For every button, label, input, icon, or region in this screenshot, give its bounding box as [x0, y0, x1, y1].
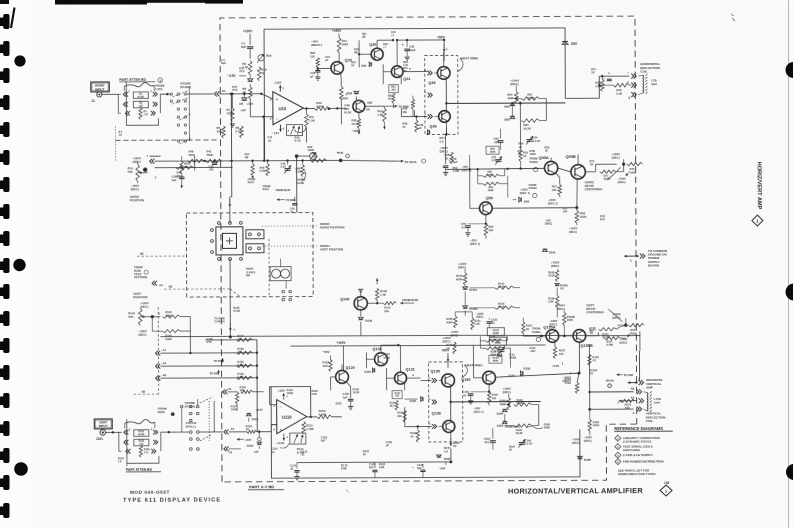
svg-text:R147: R147 [248, 180, 255, 184]
label R52 1.46K [453, 166, 460, 173]
wire out cluster [511, 98, 546, 120]
resistor R148b 2M [236, 347, 252, 355]
wire q120-q130 [342, 364, 361, 370]
svg-text:(DEC): (DEC) [572, 441, 580, 445]
svg-text:1 K: 1 K [118, 134, 122, 137]
svg-text:100K: 100K [226, 111, 234, 115]
wire vert atten out [161, 431, 177, 433]
svg-text:D38: D38 [347, 91, 353, 95]
svg-text:D106: D106 [247, 444, 254, 448]
svg-text:6μH: 6μH [651, 82, 656, 86]
svg-text:(B): (B) [362, 36, 366, 39]
interconnect arrow midleft [152, 281, 163, 287]
Q55B emitter right [584, 172, 596, 183]
svg-text:16.2K: 16.2K [344, 110, 351, 114]
title HORIZONTAL/VERTICAL AMPLIFIER [508, 486, 643, 496]
svg-text:+100V: +100V [243, 29, 253, 33]
svg-text:5μF: 5μF [321, 440, 326, 443]
svg-text:.561: .561 [391, 89, 396, 92]
right edge hole bump 2 [786, 284, 793, 301]
svg-text:+3.4V: +3.4V [256, 408, 263, 412]
ref item 1 [623, 436, 660, 444]
svg-text:U10: U10 [279, 106, 287, 111]
inductor LITB vert [644, 391, 661, 412]
svg-text:100K: 100K [567, 318, 573, 322]
wire AL to opamp [219, 92, 272, 98]
Q140 base network [367, 302, 383, 304]
svg-text:100: 100 [492, 396, 497, 400]
svg-text:1.76K: 1.76K [306, 427, 315, 431]
label TO R88b [277, 198, 296, 202]
connector J1 [91, 92, 102, 103]
resistor R58 161K [575, 178, 587, 223]
label R144 50K [128, 311, 135, 318]
transistor Q20 [331, 58, 352, 74]
svg-text:6.34K: 6.34K [316, 104, 325, 108]
svg-text:− 15V: − 15V [271, 131, 279, 135]
U110 trim network [290, 433, 306, 444]
diode D106 [247, 432, 262, 448]
svg-text:1K: 1K [445, 156, 449, 160]
svg-text:1.11: 1.11 [144, 451, 149, 454]
label RST 100 [563, 206, 568, 213]
Q30 collector [377, 39, 394, 48]
Q155A emitter [554, 341, 556, 346]
svg-text:(DEC): (DEC) [503, 390, 511, 394]
svg-text:1M: 1M [245, 155, 249, 159]
switch top wire [228, 161, 232, 223]
svg-text:90.9K: 90.9K [138, 96, 145, 99]
chevrons coil 2 [627, 81, 636, 88]
resistor R141 84.5K [465, 282, 514, 296]
svg-text:5.6K: 5.6K [379, 465, 385, 469]
svg-text:600Ω: 600Ω [383, 355, 391, 359]
label TO R49 [210, 370, 220, 376]
svg-text:(DEC 1): (DEC 1) [474, 410, 484, 414]
svg-text:86.5K: 86.5K [498, 305, 505, 309]
label FROM R147 [248, 176, 256, 185]
part x axis bd block [246, 267, 255, 278]
transistor Q135 [431, 369, 455, 387]
resistor R65 56.2K [521, 119, 539, 131]
svg-text:6.2M: 6.2M [238, 375, 244, 379]
svg-text:Q31: Q31 [403, 77, 410, 81]
svg-text:.001: .001 [484, 440, 490, 444]
svg-text:1.11: 1.11 [143, 113, 148, 116]
resistor R19 6.34K [314, 101, 329, 110]
resistor R39 39 [402, 115, 418, 132]
Q31 emitter down [400, 77, 402, 84]
resistor R148 1.4K [375, 278, 387, 303]
labels q20 area [325, 56, 356, 68]
svg-text:6.2M: 6.2M [237, 363, 243, 367]
sw dashed inner drop [268, 239, 270, 297]
svg-text:(B&C): (B&C) [545, 223, 552, 226]
svg-text:AA: AA [631, 396, 635, 400]
svg-text:+20V: +20V [245, 438, 252, 442]
label +100V DEC bias2 [450, 330, 458, 337]
Q140 collector gnd [358, 289, 363, 296]
svg-text:R169A: R169A [532, 330, 540, 334]
pot VERT POSITION [133, 292, 149, 337]
svg-text:16.2K: 16.2K [353, 391, 360, 395]
label C110 .01 [271, 444, 289, 454]
trimmer C64 [526, 136, 541, 145]
label PART X-Y BD [248, 484, 284, 490]
scratch mark top right [731, 14, 735, 21]
sw dashed link 1 [262, 225, 318, 227]
svg-text:D130: D130 [365, 370, 372, 374]
label TO K8F [617, 373, 634, 377]
transistor Q120 [336, 366, 355, 383]
Q20 base wire [317, 67, 331, 110]
svg-text:GAIN: GAIN [297, 181, 304, 185]
label FROM R355 [158, 407, 175, 433]
resistor R105 499 [240, 385, 253, 393]
wire switch out vert [199, 431, 222, 433]
svg-text:360: 360 [397, 414, 402, 418]
svg-text:1mH: 1mH [654, 400, 660, 404]
labels near switch drop [214, 306, 240, 324]
page top edge shadow [55, 0, 243, 5]
svg-text:(DEC): (DEC) [442, 339, 450, 343]
svg-text:AMP: AMP [646, 386, 653, 390]
interconnect AK [156, 373, 258, 381]
label R159A [590, 369, 598, 375]
diode D148 [358, 317, 372, 336]
svg-text:150K: 150K [165, 313, 172, 317]
svg-text:500K: 500K [207, 153, 214, 157]
resistor R8 1K [242, 84, 252, 117]
svg-text:E7Ω: E7Ω [232, 88, 237, 92]
label +15V small [246, 102, 253, 106]
resistor R146 1K [446, 342, 456, 354]
svg-text:499K: 499K [500, 402, 507, 406]
labels right mid [545, 215, 606, 225]
svg-text:16 K: 16 K [600, 218, 605, 221]
svg-text:(DEC): (DEC) [510, 82, 518, 86]
svg-text:.001: .001 [209, 168, 215, 172]
label REFERENCE DIAGRAMS [614, 426, 673, 431]
label FROM R145 [276, 188, 291, 192]
wire centering down [616, 164, 624, 172]
svg-text:K8T: K8T [367, 101, 372, 105]
U110 output [307, 416, 317, 418]
capacitor C126 [343, 392, 354, 410]
label VERT INPUT [94, 419, 112, 429]
title MOD 040-05ST [130, 490, 170, 495]
svg-text:56.2K: 56.2K [517, 401, 524, 405]
Q135-Q136 junction [449, 386, 452, 422]
svg-text:D136: D136 [444, 457, 451, 461]
capacitor C40 .001 [209, 160, 218, 172]
Q150 base [473, 345, 482, 378]
svg-text:1K: 1K [446, 346, 450, 350]
label R164 1K [509, 445, 516, 452]
svg-text:AB: AB [631, 387, 635, 391]
svg-text:1μF: 1μF [343, 395, 348, 399]
pen slash mark [11, 8, 15, 29]
label TO R148 [213, 358, 224, 363]
transistor Q36 [429, 111, 450, 129]
svg-text:AJ: AJ [162, 348, 166, 352]
store switch wires vert [182, 397, 213, 441]
vertical bus 232 lower [230, 92, 233, 196]
U110 feedback box [269, 387, 311, 432]
svg-text:1.46K: 1.46K [453, 169, 460, 173]
resistor R147 91K [383, 302, 396, 313]
svg-text:84.5K: 84.5K [498, 285, 505, 289]
pot wiper wire bottom [145, 312, 160, 319]
resistor R60 499K [507, 92, 518, 104]
Q155 interbase wire [559, 335, 573, 338]
diode D130 [365, 368, 375, 374]
diode D60b [504, 103, 514, 108]
capacitor C50 .01 [461, 222, 487, 236]
binder hole dot 1 [14, 55, 25, 66]
label HEAT SINK [460, 56, 478, 60]
label HEAT SINK 2 [464, 363, 482, 367]
wire to Q136 base [405, 407, 432, 427]
label R136 cluster [437, 441, 460, 461]
svg-text:CENTERING: CENTERING [585, 187, 603, 191]
wire input to attenuator [102, 93, 118, 95]
sep vert row2 [631, 387, 642, 395]
resistor R3 1.11K [139, 107, 149, 119]
svg-text:POSITION: POSITION [133, 295, 147, 299]
store switch labels vert [185, 401, 197, 429]
svg-text:5Ω: 5Ω [560, 288, 563, 291]
label -3.5V [227, 74, 246, 78]
svg-text:D160: D160 [549, 250, 556, 254]
resistor R45 6.2M [260, 160, 270, 176]
Q150 emitter [488, 384, 490, 392]
svg-text:U5ER: U5ER [509, 357, 516, 360]
label -100V DEC centering [618, 171, 630, 184]
svg-text:+: + [280, 428, 282, 432]
resistor R159B 100K [557, 303, 575, 336]
svg-text:TO R148: TO R148 [213, 359, 224, 363]
wire bottom rail [297, 461, 451, 464]
svg-text:100K: 100K [342, 42, 349, 46]
svg-text:100: 100 [563, 210, 568, 214]
switch dashed box [186, 213, 313, 298]
coil stub wires [638, 75, 643, 95]
horiz input inner box [92, 83, 108, 91]
labels atten top extra [118, 131, 122, 137]
bus down from atten [230, 94, 232, 161]
resistor R105b 1K [246, 424, 257, 433]
label TO GE15 [397, 159, 426, 164]
svg-text:Y: Y [233, 328, 235, 332]
svg-text:5Ω: 5Ω [453, 444, 457, 448]
label +50V b [441, 348, 450, 368]
svg-text:(DEC): (DEC) [476, 316, 483, 319]
Q150 out right [495, 373, 579, 377]
svg-text:& DYNAMIC FOCUS: & DYNAMIC FOCUS [623, 440, 651, 444]
label HORIZONTAL DEFLECTION COIL [640, 62, 661, 74]
testpoint TP45 [337, 151, 350, 162]
atten joins [118, 94, 160, 113]
bus 232-297 link [232, 154, 299, 213]
svg-text:15Ω: 15Ω [625, 406, 630, 410]
resistor R179 15R [618, 396, 644, 410]
vert atten row2 [124, 440, 158, 445]
wire A1 to U110 [229, 425, 277, 433]
svg-text:(DEC): (DEC) [138, 333, 146, 337]
boxed label R152 [487, 328, 504, 336]
svg-text:FROM R138: FROM R138 [402, 298, 418, 302]
svg-text:.01: .01 [301, 454, 305, 457]
U10 -15V pin4 [271, 125, 284, 136]
svg-text:Q135: Q135 [431, 369, 440, 373]
diode D185 [578, 456, 592, 462]
diode D38 [347, 91, 359, 95]
Q155A base [523, 335, 546, 338]
switch wafer right 1 [246, 230, 264, 239]
svg-text:Q: Q [628, 97, 630, 100]
dashed 5R line 2 [133, 307, 158, 394]
svg-text:1K: 1K [509, 448, 512, 452]
labels top deflection [591, 68, 610, 75]
svg-text:1K: 1K [363, 453, 366, 456]
title diamond [660, 485, 672, 496]
svg-text:(2): (2) [366, 107, 369, 111]
label R14 50K [128, 166, 134, 173]
svg-text:D160: D160 [497, 412, 504, 416]
side label HORIZ/VERT AMP [756, 162, 762, 210]
arrow L into Q35 [443, 44, 448, 52]
resistor R18 1K [257, 67, 267, 81]
svg-text:2M: 2M [237, 350, 241, 354]
U110 +15V [278, 389, 289, 400]
transistor Q140 [340, 297, 367, 310]
Q50 collector wire [486, 185, 500, 204]
label -100V DEC bot [503, 387, 512, 398]
svg-text:56.2K: 56.2K [523, 126, 530, 130]
label +100V vert centering [612, 312, 626, 325]
svg-text:100: 100 [184, 165, 189, 169]
capacitor C150 .01 [463, 390, 491, 404]
svg-text:100: 100 [395, 395, 400, 398]
label RT5 1A [590, 160, 595, 166]
svg-text:Q36: Q36 [429, 124, 436, 128]
wire vert input [106, 431, 122, 433]
rail +50V [437, 35, 446, 61]
labels bottom mid [321, 436, 393, 456]
svg-text:195: 195 [559, 352, 564, 356]
svg-text:100K: 100K [530, 152, 536, 156]
svg-text:1 K: 1 K [118, 460, 122, 463]
svg-text:(DEC): (DEC) [131, 187, 139, 191]
svg-text:100R: 100R [308, 148, 314, 152]
svg-text:AA: AA [162, 361, 166, 365]
labels q30 aux [362, 31, 396, 39]
cap C75 [603, 76, 612, 81]
dashed 2R line [137, 252, 187, 257]
transistor Q31 [391, 66, 410, 81]
svg-text:D60: D60 [571, 42, 577, 46]
label +3V [253, 446, 259, 454]
svg-text:J101: J101 [96, 437, 103, 441]
resistor R150 600K [446, 312, 465, 328]
svg-text:5.9: 5.9 [440, 139, 444, 143]
capacitor C9 1.5uF [241, 41, 253, 59]
trimmer C45 9-35 [281, 159, 292, 173]
svg-text:+ I: + I [383, 45, 386, 49]
Q50 output right [492, 207, 577, 210]
label +100V DEC bias [458, 262, 467, 273]
label -50V q155 [551, 362, 562, 368]
svg-text:(DEC): (DEC) [569, 230, 577, 234]
page number 148 [664, 481, 670, 485]
diode D58 [513, 197, 530, 203]
diode D160b [497, 409, 507, 415]
svg-text:600R: 600R [493, 332, 499, 335]
diode D5 [239, 94, 247, 106]
svg-text:(PULL): (PULL) [186, 425, 196, 429]
resistor R48 500K [188, 149, 204, 162]
svg-text:5.6K: 5.6K [548, 300, 554, 304]
title TYPE 611 DISPLAY DEVICE [123, 497, 221, 503]
svg-text:600K: 600K [456, 277, 463, 281]
resistor R6 0.15 [235, 126, 243, 138]
resistor R26 16.2K [339, 86, 351, 114]
svg-text:Q155A: Q155A [543, 324, 556, 329]
svg-text:Q120: Q120 [346, 366, 355, 370]
svg-text:+: + [276, 98, 278, 102]
svg-text:INPUT: INPUT [99, 424, 108, 428]
gain bus b1 [205, 339, 256, 341]
svg-text:RμF: RμF [221, 61, 226, 65]
resistor R151 [465, 312, 481, 330]
svg-text:−3.5V: −3.5V [227, 74, 236, 78]
wire to Q120 [332, 383, 342, 416]
label T160 [543, 240, 556, 254]
svg-text:1.5K: 1.5K [474, 322, 480, 326]
label PART ATTEN BD vert [126, 468, 161, 472]
store switch label [180, 82, 191, 90]
svg-text:(DECP ): (DECP ) [311, 43, 322, 47]
svg-text:100: 100 [552, 188, 557, 192]
wires q150 bias [480, 336, 510, 368]
svg-text:D140A: D140A [469, 288, 477, 292]
chevrons into Q136 [429, 421, 443, 428]
svg-text:POSITION: POSITION [130, 198, 144, 202]
capacitor C18 [310, 67, 320, 80]
resistor R142 86.5K [470, 288, 521, 310]
transistor Q35 [428, 67, 450, 85]
bottom box cluster 3 [412, 462, 446, 478]
svg-text:91K: 91K [384, 309, 389, 313]
svg-text:.01: .01 [461, 225, 465, 229]
svg-text:1M: 1M [237, 337, 241, 341]
U10 minus input wire [264, 117, 273, 161]
label -100V Q20 [339, 93, 348, 100]
switch contacts left [210, 221, 242, 260]
chevrons into Q35 base [424, 68, 437, 75]
resistor R49 250K [176, 166, 194, 178]
svg-text:1K: 1K [545, 149, 548, 153]
wire coil feed [565, 76, 629, 98]
label R110 B-150 [297, 447, 305, 454]
svg-text:+15V: +15V [278, 389, 285, 393]
heat sink dashed box [425, 55, 464, 134]
svg-text:U110: U110 [282, 415, 292, 420]
interconnect common ground [624, 253, 645, 262]
Q50 emitter down [485, 215, 487, 224]
U10 output wire [303, 107, 314, 109]
